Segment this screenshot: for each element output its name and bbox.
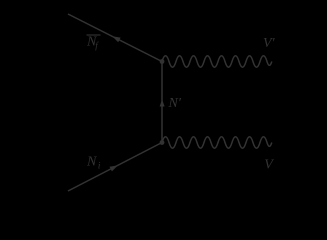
wavy boson line V (lower) [162, 137, 272, 148]
vertex dot upper [160, 59, 165, 64]
svg-text:N: N [86, 155, 97, 170]
arrow on Ni line (points up-right, toward vertex) [110, 165, 118, 171]
arrow on N' line (points up) [160, 100, 165, 107]
svg-text:V′: V′ [263, 36, 276, 51]
svg-text:V: V [264, 158, 274, 173]
vertex dot lower [160, 140, 165, 145]
svg-text:i: i [98, 160, 101, 170]
svg-text:N′: N′ [168, 96, 182, 111]
label Nf-bar [86, 35, 101, 51]
wire incoming fermion line Ni [68, 143, 162, 192]
wavy boson line V' (upper) [162, 56, 272, 67]
label Ni [86, 155, 101, 171]
wire internal propagator N' [161, 62, 163, 143]
arrow on Nf-bar line (points up-left, away from vertex) [112, 36, 120, 42]
wire incoming antifermion line Nf-bar [68, 14, 162, 62]
svg-text:f: f [95, 41, 99, 51]
